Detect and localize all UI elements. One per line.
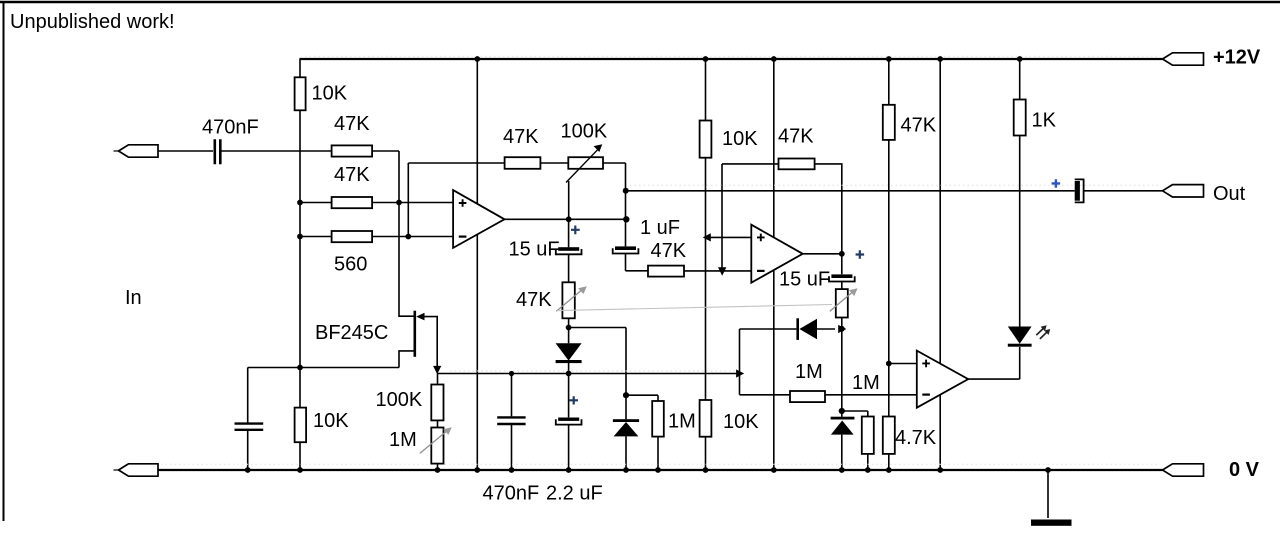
svg-text:4.7K: 4.7K [895, 427, 937, 449]
trimmer grey arrow 47K sidechain [556, 286, 587, 311]
resistor 47K to plus input [332, 197, 373, 208]
wire 15uF2 chain x841.8 [841, 254, 843, 470]
wire op3 output y379.1 [968, 378, 1020, 380]
frame left border [3, 1, 5, 521]
wire feedback right drop x625.5 [625, 163, 627, 271]
terminal In [114, 145, 159, 157]
resistor 47K sidechain trimmer [562, 282, 574, 318]
trimmer grey arrow 1M sidechain [830, 288, 858, 311]
svg-text:1M: 1M [795, 361, 823, 383]
wire loop vertical x739.5 [739, 329, 741, 395]
wire op1 minus input y236.5 [300, 236, 453, 238]
svg-text:BF245C: BF245C [315, 322, 388, 344]
wire 47K/4.7K divider x888.8 [888, 59, 890, 470]
wire op2 47K feedback right x841.8 [815, 164, 842, 254]
diode D1 sidechain (down) [556, 343, 582, 363]
plus mark 15uF op2 [856, 250, 865, 258]
potentiometer arrow 100K [566, 148, 599, 182]
svg-text:47K: 47K [901, 115, 937, 137]
wire Out line y190.8 [626, 190, 1163, 192]
wire +12V top rail [300, 58, 1163, 60]
wire op3 plus input y363.5 [889, 363, 917, 365]
op-amp U1 [453, 190, 504, 248]
svg-text:Out: Out [1213, 183, 1246, 205]
ghost grey line above gate run [450, 370, 735, 372]
diode D2 zener (up) [613, 419, 639, 436]
svg-text:470nF: 470nF [202, 117, 259, 139]
plus mark 15uF [571, 226, 580, 235]
svg-text:In: In [125, 287, 142, 309]
op-amp U3 [917, 351, 968, 408]
svg-text:15 uF: 15 uF [509, 239, 560, 261]
svg-text:47K: 47K [334, 164, 370, 186]
resistor 4.7K threshold [883, 417, 895, 454]
junction dots op2 [839, 251, 892, 414]
svg-text:0 V: 0 V [1229, 459, 1260, 481]
wire 0V bottom rail [158, 469, 1163, 471]
trimmer grey arrow 1M gate [420, 427, 452, 453]
resistor 1M bleed [862, 417, 874, 454]
wire op1 output y219.3 [505, 218, 627, 220]
junction dots bottom rail [245, 467, 1051, 473]
resistor 47K op2 input [648, 266, 684, 277]
svg-text:15 uF: 15 uF [779, 269, 830, 291]
svg-text:10K: 10K [313, 410, 349, 432]
wire 15uF chain x568.6 [568, 219, 570, 470]
wire JFET source to bus y367.5 [248, 367, 399, 369]
capacitor 15uF polarized op2 [829, 274, 855, 281]
wire ground stub x1048 [1047, 470, 1049, 518]
terminal Out [1163, 185, 1204, 197]
resistor 1M sidechain trimmer [836, 289, 848, 317]
wire 100K/1M divider x437.5 [437, 374, 439, 471]
resistor 10K bottom-left [295, 408, 307, 443]
svg-text:100K: 100K [376, 389, 423, 411]
svg-text:10K: 10K [312, 83, 348, 105]
arrow D3 into chain [838, 325, 846, 333]
wire diode D3 row y329 [740, 328, 836, 330]
resistor 10K top-left [295, 77, 306, 110]
potentiometer 100K feedback op1 [568, 157, 603, 169]
arrow plus wire junction op2 [703, 233, 711, 241]
terminal 0V left [114, 464, 159, 476]
wire left bias bus vertical x300 [299, 59, 301, 470]
capacitor 470nF bottom plates [497, 417, 525, 424]
capacitor 1uF polarized [613, 246, 639, 253]
capacitor bias decoupling plates [235, 424, 264, 430]
ghost grey line above Out [630, 184, 1160, 186]
svg-text:2.2 uF: 2.2 uF [546, 483, 603, 505]
svg-text:47K: 47K [516, 289, 552, 311]
junction dots sidechain [509, 325, 629, 399]
wire op3 power rail x940.2 [939, 59, 941, 470]
wire zener drop x626 [625, 328, 627, 471]
diode D4 zener2 (up) [831, 417, 855, 435]
wire input drop x399 to JFET drain [399, 151, 414, 316]
resistor 1M zener load [652, 401, 664, 437]
svg-text:10K: 10K [723, 411, 759, 433]
svg-text:560: 560 [334, 254, 367, 276]
svg-text:1 uF: 1 uF [640, 217, 680, 239]
wire diode D1 branch y327.5 [569, 327, 626, 329]
resistor 47K op2 feedback [779, 159, 815, 170]
svg-text:1K: 1K [1032, 110, 1057, 132]
wire op2 power rail x773.8 [773, 59, 775, 470]
terminal +12V [1163, 53, 1204, 65]
svg-text:1M: 1M [852, 372, 880, 394]
wire 100K pot wiper drop x568.7 [568, 181, 570, 219]
capacitor output polarized vertical [1075, 179, 1084, 202]
capacitor 2.2uF polarized [556, 418, 582, 425]
diode D3 loop (left) [796, 318, 817, 340]
svg-text:47K: 47K [503, 126, 539, 148]
wire In line y151 [158, 150, 399, 152]
op-amp U2 [751, 225, 802, 283]
arrow minus wire junction op2 [718, 267, 726, 276]
svg-text:470nF: 470nF [483, 483, 540, 505]
wire op2 minus input y270.5 [684, 270, 751, 272]
wire op2 47K feedback left x722 [722, 164, 779, 270]
wire bias cap drop x247.7 [247, 368, 249, 471]
wire JFET gate lead [424, 317, 437, 367]
wire 1M row to op3 minus y394.8 [740, 394, 917, 396]
junction dot feedback minus [405, 234, 411, 240]
resistor 47K feedback op1 [505, 157, 541, 169]
svg-text:47K: 47K [778, 126, 814, 148]
frame top border [0, 1, 1280, 3]
arrow gate into node [433, 366, 441, 374]
wire LED branch x1019.7 [1019, 59, 1021, 379]
plus mark 2.2uF [570, 396, 579, 404]
resistor 1M gate trimmer [431, 428, 443, 464]
wire op2 output y253.8 [803, 253, 842, 255]
transistor Q1 gate arrow [416, 313, 424, 321]
ghost grey line below top rail [305, 55, 1160, 57]
gang line grey [557, 305, 832, 311]
resistor 1K LED [1014, 100, 1026, 136]
wire 1M-b jog y411 [842, 411, 868, 470]
resistor 1M op3 feedback [790, 391, 825, 402]
resistor 10K mid top [700, 121, 712, 158]
junction dots bias bus [297, 200, 303, 371]
resistor 47K threshold top [883, 105, 895, 140]
svg-text:+12V: +12V [1213, 47, 1261, 69]
wire op1 plus input y202.5 [300, 202, 453, 204]
wire gate node long run y373.5 [437, 373, 739, 375]
capacitor 470nF input plates [215, 139, 221, 164]
svg-text:Unpublished work!: Unpublished work! [10, 11, 175, 33]
arrow gate run into loop [736, 369, 744, 377]
junction dots top rail [474, 56, 1022, 62]
wire op1 feedback top y163.9 [408, 162, 625, 164]
wire 1uF to 47K elbow y270.8 [626, 270, 649, 272]
LED light arrows [1036, 325, 1050, 339]
resistor 47K input [332, 145, 373, 156]
resistor 10K mid bottom [700, 400, 712, 437]
svg-text:1M: 1M [389, 429, 417, 451]
plus mark output cap [1052, 179, 1061, 188]
svg-text:47K: 47K [334, 113, 370, 135]
resistor 100K gate divider [431, 385, 443, 421]
svg-text:10K: 10K [722, 128, 758, 150]
wire zener node jog y395.2 [626, 395, 658, 470]
junction dots op1 output [566, 188, 630, 223]
svg-text:47K: 47K [651, 240, 687, 262]
svg-text:1M: 1M [668, 411, 696, 433]
ghost grey line above bottom rail [125, 463, 1160, 465]
ground symbol [1031, 520, 1072, 526]
wire op1 power rail x477.3 [476, 59, 478, 470]
transistor Q1 BF245C channel bar [413, 311, 416, 357]
wire op2 plus input y236.6 [706, 236, 752, 238]
wire op1 feedback vertical x408.3 [407, 163, 409, 237]
svg-text:100K: 100K [561, 121, 608, 143]
wire 470nF drop x511.5 [511, 374, 513, 471]
wire 10K mid bus x705.5 [705, 59, 707, 470]
wire JFET source lead [399, 351, 414, 368]
junction dot input drop [396, 200, 402, 206]
resistor 560 [332, 231, 373, 242]
terminal 0V right [1163, 464, 1204, 476]
capacitor 15uF polarized op1 [556, 247, 582, 254]
LED D5 [1008, 327, 1032, 347]
